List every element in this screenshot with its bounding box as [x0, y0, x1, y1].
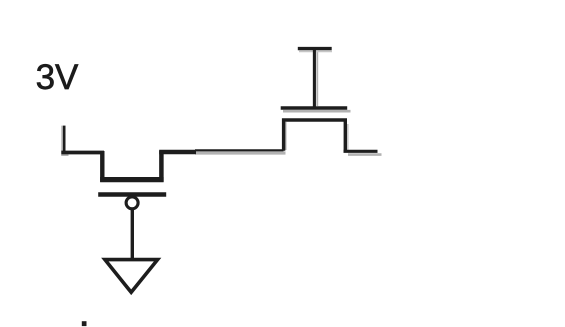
- svg-text:3V: 3V: [36, 58, 79, 97]
